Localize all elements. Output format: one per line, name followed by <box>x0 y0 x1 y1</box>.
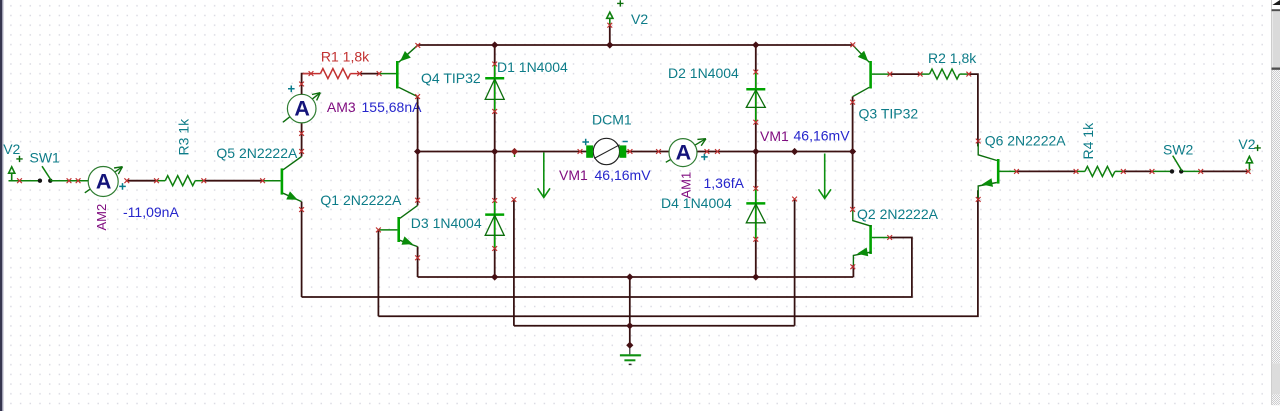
svg-text:D4 1N4004: D4 1N4004 <box>661 195 732 211</box>
pin marker V2 left <box>17 178 22 183</box>
switch SW2 lever <box>1173 156 1182 171</box>
wire: Q1 collector up to motor node <box>417 152 419 206</box>
junction node motor rail / D1-D3 <box>491 148 498 155</box>
wire: Q2 collector up to motor node <box>852 152 854 211</box>
switch SW2 contact dots <box>1170 169 1174 173</box>
svg-text:Q3 TIP32: Q3 TIP32 <box>859 105 919 121</box>
wire: R1 to Q4 base <box>360 73 380 75</box>
pin markers Q6 <box>976 139 981 144</box>
plus sign V2 left <box>16 156 22 162</box>
pin markers D2 <box>753 70 758 75</box>
wire: R3 to Q5 base <box>204 180 263 182</box>
pin markers R4 <box>1074 169 1079 174</box>
svg-text:DCM1: DCM1 <box>592 111 632 127</box>
pin markers DCM1 <box>578 149 583 154</box>
pin markers D3 <box>492 198 497 203</box>
pin marker VM column right <box>792 197 797 202</box>
transistor Q6 2N2222A (mirrored) <box>978 144 1016 198</box>
junction node ground pin <box>626 342 633 349</box>
wire: bottom link bus4 <box>514 325 795 327</box>
wire: Q1 base down column <box>377 230 379 316</box>
diode D1 1N4004 <box>485 64 504 111</box>
minus sign DCM1 <box>623 141 628 143</box>
plus sign AM3 <box>288 86 295 93</box>
diode D4 1N4004 <box>746 189 765 240</box>
off-page hatched area upper <box>1272 70 1280 363</box>
wire: Q4 collector down to motor node <box>417 97 419 152</box>
junction node bus4 / ground <box>626 322 633 329</box>
svg-text:-11,09nA: -11,09nA <box>123 204 179 220</box>
wire: VM pin column right x794 <box>794 199 796 326</box>
voltmeter VM1 arrow right <box>819 154 832 199</box>
voltage source V2 right arrow <box>1246 156 1252 171</box>
svg-text:46,16mV: 46,16mV <box>595 167 652 183</box>
wire: Q1 emitter down to emitter bus <box>417 247 419 277</box>
wire: Q6 base to R4 <box>1017 170 1077 172</box>
voltmeter VM1 arrow left <box>538 153 550 198</box>
wire: Q5 collector up to AM3 <box>301 123 303 157</box>
svg-text:R3 1k: R3 1k <box>176 118 192 156</box>
pin marker Q4 base <box>377 71 382 76</box>
pin marker AM2 right <box>124 178 129 183</box>
svg-text:VM1: VM1 <box>559 167 588 183</box>
pin markers Q5 collector/emitter <box>299 149 304 154</box>
window left border <box>0 0 2 411</box>
pin marker Q1 base <box>376 228 381 233</box>
junction node motor rail / D2-D4 <box>752 148 759 155</box>
ground <box>620 345 641 364</box>
plus sign AM1 <box>701 154 708 161</box>
wire: left rail V2 to switch (green lead) <box>9 180 41 182</box>
resistor R4 <box>1076 166 1123 176</box>
wire: SW1 to ammeter AM2 (green lead) <box>50 180 88 182</box>
wire: AM3 up and over to R1 <box>302 74 304 95</box>
junction node emitter bus / D3 <box>491 273 498 280</box>
wire: D3 column (motor node down) <box>494 152 496 278</box>
pin stub at node 514 <box>514 153 516 158</box>
junction node motor rail / VM pin left <box>511 148 518 155</box>
pin markers SW1-AM2 <box>67 178 72 183</box>
svg-text:AM3: AM3 <box>327 99 356 115</box>
svg-text:R1 1,8k: R1 1,8k <box>321 48 370 64</box>
svg-text:SW1: SW1 <box>30 150 61 166</box>
ammeter AM3 <box>283 93 320 123</box>
svg-text:R4 1k: R4 1k <box>1080 122 1096 160</box>
wire: D2 column (top bus to motor node) <box>755 45 757 152</box>
svg-text:Q4 TIP32: Q4 TIP32 <box>421 70 481 86</box>
svg-text:V2: V2 <box>1238 136 1255 152</box>
pin markers Q2 <box>850 207 855 212</box>
ammeter AM1 <box>666 139 706 167</box>
junction node emitter bus / D4 <box>752 273 759 280</box>
ammeter AM2 <box>85 167 123 197</box>
scrollbar thumb lower <box>1272 363 1280 394</box>
wire: V2 stem to top bus <box>609 25 611 45</box>
wire: Q2 emitter down to emitter bus <box>852 265 854 277</box>
svg-text:V2: V2 <box>3 141 20 157</box>
svg-text:46,16mV: 46,16mV <box>794 127 851 143</box>
pin markers D4 <box>753 186 758 191</box>
wire: D1 column (top bus to motor node) <box>494 45 496 152</box>
wire: Q5 emitter down column <box>301 202 303 297</box>
wire: R2 over and down to Q6 collector <box>969 74 978 146</box>
wire: SW2 to V2 right <box>1201 170 1249 172</box>
svg-text:Q6 2N2222A: Q6 2N2222A <box>985 132 1067 148</box>
plus sign V2 right <box>1254 145 1260 151</box>
dc motor DCM1 <box>586 138 626 164</box>
wire: Q3 collector down to motor node <box>852 97 854 152</box>
junction node top bus / D2 <box>752 41 759 48</box>
svg-text:SW2: SW2 <box>1163 142 1194 158</box>
pin markers AM3 <box>299 131 304 136</box>
voltage source V2 left arrow <box>9 167 15 181</box>
transistor Q1 2N2222A <box>378 205 417 248</box>
wire: emitter bus1 <box>418 276 854 278</box>
switch SW2 leads <box>1152 170 1172 172</box>
voltage source V2 top arrow <box>607 12 613 25</box>
junction node emitter bus / ground <box>626 273 633 280</box>
wire: crossover bus2 (Q5 emitter to Q2 base) <box>302 238 912 298</box>
transistor Q5 2N2222A <box>263 157 302 204</box>
plus sign V2 top <box>617 0 623 6</box>
pin marker V2 right <box>1246 169 1251 174</box>
switch SW1 contact dots <box>38 179 42 183</box>
pin markers R1 <box>309 71 314 76</box>
wire: VM pin column left x514 <box>513 200 515 326</box>
svg-text:Q1 2N2222A: Q1 2N2222A <box>320 192 402 208</box>
transistor Q4 TIP32 <box>379 45 418 96</box>
off-page hatched area lower <box>1272 394 1280 405</box>
wire: middle bus (motor rail) <box>418 151 853 153</box>
svg-text:D2 1N4004: D2 1N4004 <box>668 65 739 81</box>
resistor R3 <box>157 176 204 186</box>
diode D2 1N4004 <box>746 72 765 122</box>
svg-text:Q2 2N2222A: Q2 2N2222A <box>857 206 939 222</box>
junction node motor rail / Q3-Q2 <box>849 148 856 155</box>
svg-text:1,36fA: 1,36fA <box>704 175 745 191</box>
scrollbar corner triangle <box>1272 0 1280 5</box>
pin markers R2 <box>918 72 923 77</box>
resistor R1 (selected, red) <box>311 69 360 79</box>
pin marker VM column left <box>512 197 517 202</box>
pin markers R3 <box>154 178 159 183</box>
scrollbar dark bar bottom <box>1272 68 1280 70</box>
wire: ground column <box>629 277 631 345</box>
wire: R4 to SW2 <box>1123 170 1152 172</box>
pin markers SW2 <box>1150 169 1155 174</box>
wire: AM2 to R3 <box>127 180 157 182</box>
scrollbar dark bar top <box>1272 9 1280 11</box>
junction node top bus / D1 <box>491 41 498 48</box>
pin marker Q5 base <box>260 178 265 183</box>
wire: top supply bus <box>418 44 853 46</box>
junction node top bus / V2 <box>606 41 613 48</box>
pin markers Q3 <box>850 42 855 47</box>
switch SW1 lever <box>42 166 51 180</box>
wire: D4 column (motor node down) <box>755 152 757 278</box>
pin markers Q1 collector/emitter <box>415 198 420 203</box>
svg-text:R2 1,8k: R2 1,8k <box>928 50 977 66</box>
svg-text:D1 1N4004: D1 1N4004 <box>497 59 568 75</box>
transistor Q3 TIP32 (mirrored) <box>853 45 890 96</box>
plus sign DCM1 <box>582 139 589 146</box>
pin markers Q4 emitter/collector <box>415 43 420 48</box>
page edge line right <box>1270 0 1273 405</box>
svg-text:155,68nA: 155,68nA <box>362 99 423 115</box>
diode D3 1N4004 <box>485 201 504 249</box>
pin marker V2 top <box>607 23 612 28</box>
junction node motor rail / Q4-Q1 <box>414 148 421 155</box>
svg-text:A: A <box>676 141 692 165</box>
pin markers D1 <box>492 62 497 67</box>
pin markers AM1 <box>656 149 661 154</box>
wire: crossover bus3 (Q1 base to Q6 emitter) <box>378 190 978 316</box>
svg-text:D3 1N4004: D3 1N4004 <box>411 215 482 231</box>
svg-text:AM2: AM2 <box>94 204 109 231</box>
resistor R2 <box>920 69 969 79</box>
svg-text:Q5 2N2222A: Q5 2N2222A <box>216 145 298 161</box>
transistor Q2 2N2222A (mirrored) <box>853 211 890 268</box>
svg-text:A: A <box>294 97 310 121</box>
scrollbar light track <box>1272 11 1280 67</box>
junction node motor rail / VM pin right <box>791 148 798 155</box>
plus sign AM2 <box>119 183 126 190</box>
svg-text:VM1: VM1 <box>760 128 789 144</box>
svg-text:A: A <box>96 170 112 194</box>
wire: Q3 base to R2 <box>890 73 920 75</box>
svg-text:V2: V2 <box>631 11 648 27</box>
